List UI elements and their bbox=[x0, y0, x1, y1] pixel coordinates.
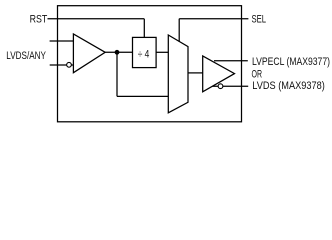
wire output+ bbox=[214, 60, 248, 62]
svg-text:LVPECL (MAX9377): LVPECL (MAX9377) bbox=[252, 56, 330, 68]
inverting bubble input buffer bbox=[67, 62, 72, 67]
wire RST horizontal bbox=[48, 18, 145, 20]
wire buffer out to divider bbox=[105, 51, 132, 53]
svg-text:RST: RST bbox=[30, 14, 48, 26]
wire SEL vertical to mux bbox=[178, 19, 180, 42]
node junction dot bbox=[115, 50, 120, 55]
svg-text:LVDS/ANY: LVDS/ANY bbox=[6, 50, 46, 62]
wire RST vertical to divider top bbox=[143, 19, 145, 38]
op-amp U1 input buffer bbox=[73, 34, 105, 73]
wire bypass to mux bbox=[117, 95, 168, 97]
inverting bubble output buffer bbox=[218, 84, 223, 89]
op-amp U2 output buffer bbox=[203, 56, 235, 92]
divider block /4 bbox=[133, 37, 157, 67]
svg-text:SEL: SEL bbox=[252, 13, 267, 25]
wire SEL horizontal bbox=[179, 18, 248, 20]
wire input- line bbox=[50, 64, 74, 66]
mux bbox=[168, 35, 188, 113]
wire mux out to output buffer bbox=[188, 72, 203, 74]
wire input+ stub bbox=[50, 40, 74, 42]
chip outline box bbox=[58, 6, 242, 122]
svg-text:OR: OR bbox=[252, 68, 263, 80]
svg-text:LVDS (MAX9378): LVDS (MAX9378) bbox=[252, 80, 324, 92]
wire output- bbox=[213, 85, 249, 87]
wire divider out to mux bbox=[156, 51, 168, 53]
svg-text:÷ 4: ÷ 4 bbox=[138, 48, 150, 60]
wire junction drop bbox=[116, 52, 118, 96]
